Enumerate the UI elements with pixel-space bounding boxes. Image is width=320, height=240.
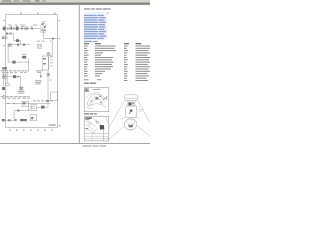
ignition switch rotary symbol (41, 21, 46, 28)
splice S4 (23, 44, 25, 46)
footer status text (83, 145, 107, 146)
frameset divider vertical (78, 5, 80, 143)
wire: link motor to capacitor (37, 106, 41, 108)
bottom row: splice (8, 119, 10, 121)
junction box right bottom (51, 92, 58, 101)
tick on feed wire (50, 40, 52, 42)
connector C2 (13, 27, 15, 29)
connector above relay (47, 53, 50, 55)
wire: solenoid drop (49, 39, 53, 56)
figure title header text (84, 8, 110, 9)
relay coil box above wire (22, 56, 26, 59)
location illustration: steering column assembly (122, 102, 140, 130)
bottom row: ground label (2, 119, 5, 121)
location illustration: mirror housing (125, 95, 138, 101)
ignition switch body (41, 29, 46, 32)
ground symbol box (30, 115, 36, 121)
table group 1 rows (84, 46, 116, 77)
table footnote marks (84, 79, 102, 80)
wire: drop to battery row (20, 77, 22, 88)
inline connector on right run (47, 73, 50, 76)
starter solenoid (38, 44, 42, 48)
figure 23 caption (84, 113, 97, 114)
wire: bottom bus (6, 102, 51, 104)
wire: vertical at 14 (13, 111, 15, 120)
detail box 1 (84, 88, 109, 112)
steering column dark details (128, 103, 134, 128)
connector text row 2 (1, 96, 30, 99)
connector text row 1 (1, 70, 43, 73)
diode component (12, 61, 15, 64)
relay module box (22, 101, 29, 106)
junction block (16, 26, 19, 30)
wire labels above feed bus (8, 25, 38, 27)
starter relay block (42, 56, 49, 70)
junction dot 2 (14, 103, 15, 104)
connector pair row 3 (2, 37, 4, 39)
resistor on drop wire (16, 39, 19, 42)
wire: ignition feed down arrow (40, 73, 42, 78)
wire: drop to row 3 (14, 34, 21, 41)
ground G101 label (2, 67, 7, 69)
park/neutral switch (13, 75, 16, 78)
wire labels row 3 (2, 35, 7, 38)
fuse block (10, 27, 12, 29)
connector box left (2, 75, 6, 79)
schematic border frame (6, 15, 58, 128)
connector on row 2 (6, 33, 8, 35)
table group 2 header (124, 43, 141, 44)
wire: ammeter row (8, 44, 30, 46)
wire: to starter arrow (43, 38, 57, 40)
inline connector left (6, 83, 9, 85)
toolbar remnant top strip (0, 0, 150, 5)
zone labels left of frame (3, 20, 4, 96)
hyperlink block bleed veil (84, 12, 108, 40)
wire: vertical from relay (28, 59, 30, 72)
bottom row: label box (20, 119, 27, 121)
battery (17, 87, 24, 93)
splice S1 (21, 28, 23, 30)
frameset divider bottom (0, 142, 150, 144)
wire: row 2 (6, 33, 14, 35)
wire: row at 62 (8, 61, 29, 63)
connector C1 (7, 27, 9, 29)
figure 22 caption (84, 83, 96, 84)
gauge assembly box (8, 43, 11, 46)
wire: left vertical run (7, 45, 9, 63)
text row mid bottom (33, 99, 53, 102)
bottom row: arrow (15, 119, 18, 121)
ignition switch label block (35, 80, 41, 84)
wire: main feed bus (2, 28, 41, 30)
marks near junction box (46, 100, 49, 102)
table group 1 header (84, 43, 101, 44)
wire: left area drop (6, 76, 21, 78)
drawing number text (49, 124, 56, 125)
connector on row 2b (10, 33, 12, 35)
ground block (2, 87, 5, 90)
capacitor component (41, 106, 45, 109)
wire: right vertical run (47, 70, 49, 107)
fusible link F1 (3, 27, 6, 31)
relay pin labels (50, 57, 53, 67)
detail box 2 (84, 117, 109, 141)
wire: drop to ammeter row (20, 41, 22, 45)
arrow to right border (52, 38, 55, 40)
bottom row wire (5, 119, 15, 121)
splice S3 (17, 44, 19, 46)
zone label right of frame (59, 20, 61, 126)
location illustration: callout lines (109, 100, 150, 139)
figure subtitle line (84, 12, 109, 13)
junction dot 1 (8, 103, 9, 104)
wire: row at 110.6 (14, 110, 30, 112)
starter motor box (31, 105, 37, 111)
zone labels above top border (20, 13, 56, 14)
hyperlink list (84, 15, 106, 42)
zone labels below bottom border (9, 130, 53, 131)
label boxes above solenoid (37, 41, 45, 42)
splice S2 (31, 28, 33, 30)
table group 2 rows (124, 46, 150, 82)
wire: vertical drop right of relay module (28, 103, 30, 110)
fuse box (25, 27, 28, 30)
wire: small verticals (3, 73, 5, 87)
arrow on row (18, 76, 20, 78)
